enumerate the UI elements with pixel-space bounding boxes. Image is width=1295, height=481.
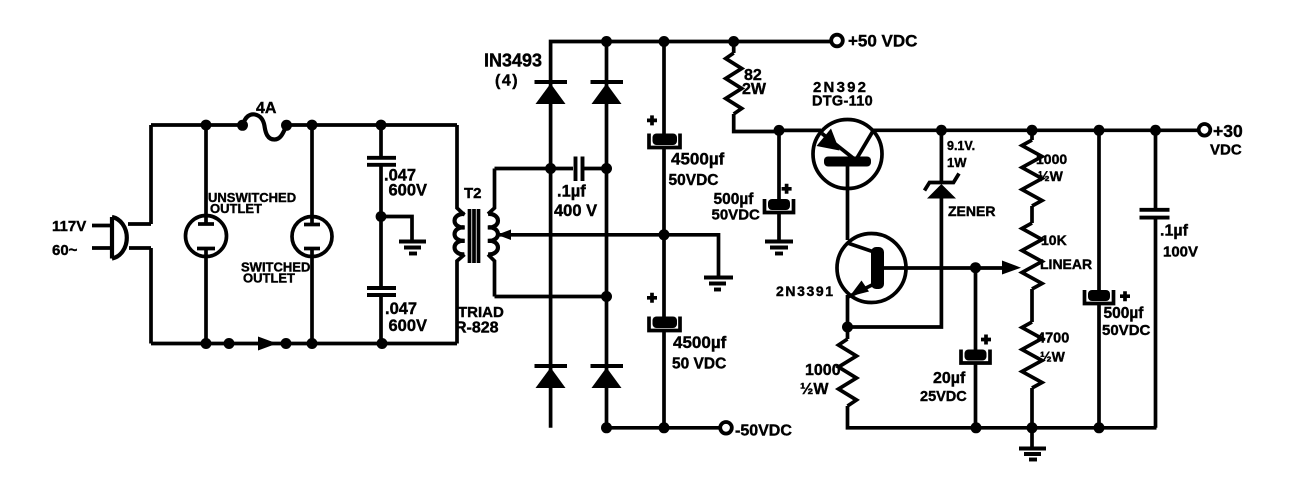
ground secondary common [704,278,733,290]
wire emitter to zener bottom [848,198,942,327]
svg-text:.047: .047 [385,300,417,318]
svg-text:117V: 117V [52,218,86,235]
junction +30 rail at C9 [1150,125,1161,136]
+30VDC terminal [1199,124,1211,136]
capacitor C4 4500uf 50VDC top [649,42,680,235]
svg-text:+50 VDC: +50 VDC [848,32,917,51]
junction top rail at switched outlet [307,120,318,131]
plus sign C6 [782,184,792,194]
resistor R5 4700 1/2W [1022,322,1042,428]
junction -50 rail at C5 [659,422,670,433]
ground bottom [1019,428,1046,460]
capacitor C1 .047 600V top [367,125,396,287]
svg-text:1W: 1W [947,155,967,170]
capacitor C2 .047 600V bottom [367,288,396,344]
svg-text:100V: 100V [1163,244,1198,261]
resistor R3 1000 1/2W [1022,130,1042,223]
svg-text:2N3391: 2N3391 [776,283,835,299]
svg-text:TRIAD: TRIAD [458,304,504,321]
ground below C6 [765,242,793,254]
zener diode CR1 [925,130,960,199]
junction bottom rail switch left [224,338,235,349]
potentiometer R4 10K LINEAR [1022,223,1042,322]
svg-text:2W: 2W [742,81,767,98]
junction bottom rail at line cap branch [377,338,388,349]
center tap arrow [497,230,511,241]
diode D4 [591,366,624,388]
capacitor C5 4500uf 50VDC bottom [649,235,680,428]
junction node AC2 right bridge arm [601,163,612,174]
svg-text:4A: 4A [256,100,277,117]
junction ground rail at C8 [1094,422,1105,433]
svg-text:IN3493: IN3493 [484,51,542,71]
svg-text:50VDC: 50VDC [1102,322,1151,339]
svg-text:25VDC: 25VDC [920,389,967,405]
svg-text:1000: 1000 [805,362,841,379]
junction node AC1 left bridge arm [545,163,556,174]
-50VDC terminal [720,422,732,434]
wire secondary bottom to bridge [495,295,607,299]
junction bottom rail at switched outlet [307,338,318,349]
wire left vertical rail top [149,125,153,224]
wire bottom rail primary [151,342,457,346]
svg-text:T2: T2 [464,185,482,202]
svg-text:½W: ½W [1040,349,1066,365]
junction +50 rail at right bridge arm [601,36,612,47]
switched outlet J2 [292,125,332,344]
svg-text:4700: 4700 [1037,331,1069,347]
svg-text:½W: ½W [800,381,829,398]
wire to Q1 emitter [779,129,821,133]
junction top rail at unswitched outlet [201,120,212,131]
svg-text:60~: 60~ [52,242,78,259]
transistor Q1 2N392 [813,120,882,241]
diode D1 [535,82,568,104]
svg-text:50VDC: 50VDC [712,207,761,224]
junction top rail at line cap branch [376,120,387,131]
junction wiper line at 20uf [970,262,981,273]
wire to chassis ground [381,217,412,241]
svg-text:10K: 10K [1041,232,1067,248]
transformer T2 [455,125,498,344]
junction center rail at C4/C5 [659,229,670,240]
wire left vertical rail bottom [149,248,153,344]
plus sign C7 [981,335,991,345]
svg-text:VDC: VDC [1210,142,1242,159]
junction -50 rail at right bridge arm [601,422,612,433]
junction secondary bottom to bridge [601,291,612,302]
wire center tap rail [498,235,719,277]
capacitor C3 .1uf 400V [551,157,607,182]
AC plug P1 [92,217,127,259]
switch arrow on bottom rail [258,337,277,351]
resistor R1 82 2W [726,42,779,132]
svg-text:OUTLET: OUTLET [243,271,295,286]
svg-text:400 V: 400 V [554,202,597,220]
capacitor C6 500uf 50VDC [765,130,794,240]
junction +30 rail at C8 [1094,125,1105,136]
capacitor C7 20uf 25VDC [961,268,990,428]
svg-text:OUTLET: OUTLET [210,201,262,216]
junction bottom rail switch right [281,338,292,349]
junction at 500uf left [774,125,785,136]
wire plug bottom to left rail [129,246,151,250]
capacitor C9 .1uf 100V [1140,130,1170,428]
svg-text:500µf: 500µf [1104,305,1145,322]
diode D3 [535,366,568,388]
svg-text:.1µf: .1µf [1160,223,1189,240]
svg-text:20µf: 20µf [933,370,966,387]
capacitor C8 500uf 50VDC right [1085,130,1114,428]
plus sign C4 [647,115,657,125]
junction +50 rail at R1 [728,36,739,47]
ground primary [399,242,426,254]
svg-text:1000: 1000 [1036,151,1067,167]
svg-text:500µf: 500µf [714,191,755,208]
wire top rail primary [151,123,242,127]
svg-text:ZENER: ZENER [948,203,995,219]
junction ground tap [376,211,387,222]
resistor R2 1000 1/2W lower [839,327,1157,428]
svg-text:600V: 600V [389,181,428,199]
junction ground rail at C7 [971,422,982,433]
wire -50 rail [607,426,720,430]
svg-text:½W: ½W [1038,168,1064,184]
wire secondary top to bridge [495,167,551,171]
wire top rail after fuse [287,123,458,127]
svg-text:-50VDC: -50VDC [735,423,792,440]
svg-text:(4): (4) [495,73,519,90]
fuse F1 4A [237,114,292,139]
plus sign C8 [1120,291,1130,301]
svg-text:9.1V.: 9.1V. [947,139,975,153]
wire plug top to left rail [128,222,151,226]
junction ground rail at R5 [1027,422,1038,433]
unswitched outlet J1 [186,125,227,344]
svg-text:600V: 600V [389,317,428,335]
junction bottom rail at unswitched outlet [201,338,212,349]
+50VDC terminal [831,35,843,47]
junction +30 rail at R3 [1027,125,1038,136]
junction +50 rail at C4 [659,36,670,47]
svg-text:DTG-110: DTG-110 [812,94,873,110]
transistor Q2 2N3391 [837,234,1002,328]
svg-text:R-828: R-828 [455,320,499,337]
bridge right vertical wire [605,42,609,428]
junction Q2 emitter [842,322,853,333]
svg-text:4500µf: 4500µf [673,333,727,352]
bridge left vertical wire [551,42,836,428]
diode D2 [591,82,624,104]
wire Q1 collector to +30 rail [873,128,1198,132]
svg-text:LINEAR: LINEAR [1040,256,1092,272]
svg-text:50VDC: 50VDC [669,172,719,189]
wiper arrow to pot [1002,261,1021,275]
plus sign C5 [647,293,657,303]
svg-text:+30: +30 [1213,121,1243,141]
svg-text:4500µf: 4500µf [671,150,725,169]
svg-text:50 VDC: 50 VDC [672,356,726,373]
svg-text:.1µf: .1µf [557,183,586,201]
junction zener top [936,125,947,136]
